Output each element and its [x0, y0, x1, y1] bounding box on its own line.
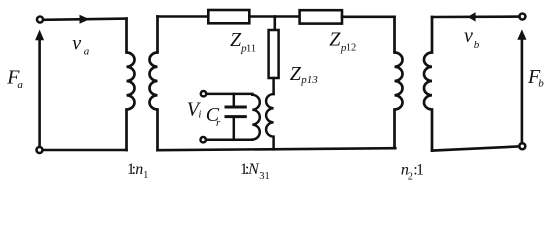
capacitor Cr top lead [233, 94, 236, 106]
inductor L2a primary winding n2:1 [395, 17, 403, 148]
resistor Zp12 box [300, 10, 342, 23]
wire Fa vertical [38, 38, 41, 147]
capacitor Cr bottom plate [226, 115, 245, 118]
svg-text:i: i [198, 109, 201, 121]
terminal port b bottom [519, 143, 525, 149]
wire node stem to Zp13 [273, 17, 276, 31]
inductor L1a primary winding 1:n1 [127, 19, 135, 150]
arrow vb left [468, 12, 476, 21]
svg-text:a: a [17, 79, 23, 91]
svg-text:b: b [474, 39, 480, 51]
capacitor Cr top plate [226, 106, 245, 109]
capacitor Cr bottom lead [233, 118, 236, 140]
svg-text:1: 1 [416, 161, 424, 178]
arrow va right [80, 15, 90, 24]
svg-text:v: v [72, 32, 81, 54]
inductor L2b secondary winding n2:1 [424, 17, 432, 151]
svg-text:11: 11 [246, 43, 256, 54]
arrow Fb up [517, 29, 526, 39]
svg-text:12: 12 [346, 43, 357, 54]
wire Vi bottom [206, 139, 252, 142]
svg-text:31: 31 [259, 171, 270, 182]
svg-text:1: 1 [143, 170, 148, 181]
wire Zp13 to L31b [272, 78, 275, 94]
svg-text:2: 2 [408, 171, 413, 182]
svg-text:Z: Z [290, 63, 302, 85]
wire Fb vertical [521, 37, 524, 143]
svg-text:r: r [216, 117, 221, 129]
inductor L31b secondary winding 1:N31 [266, 94, 274, 149]
svg-text:N: N [247, 161, 260, 178]
svg-text:v: v [464, 25, 473, 47]
wire bottom right horizontal [432, 146, 519, 150]
wire top rail right [342, 15, 395, 18]
wire top rail middle [249, 15, 299, 18]
svg-text:Z: Z [329, 28, 341, 50]
wire top rail left [158, 15, 209, 18]
wire vb top horizontal [432, 15, 519, 18]
svg-text:p13: p13 [300, 74, 318, 86]
terminal Vi bottom [201, 137, 206, 142]
terminal port b top [519, 14, 525, 20]
wire va top horizontal [44, 19, 127, 20]
inductor L31a primary winding 1:N31 [252, 95, 260, 140]
svg-text:a: a [84, 46, 90, 58]
terminal port a bottom [37, 147, 43, 153]
inductor L1b secondary winding 1:n1 [149, 17, 157, 151]
arrow Fa up [35, 30, 44, 41]
terminal port a top [37, 17, 43, 23]
terminal Vi top [201, 91, 206, 96]
svg-text:b: b [538, 78, 544, 90]
svg-text:n: n [135, 161, 143, 178]
resistor Zp13 box [269, 30, 279, 78]
wire bottom left horizontal [43, 149, 126, 152]
wire Vi top [206, 93, 252, 96]
resistor Zp11 box [208, 10, 249, 23]
wire bottom rail [158, 148, 396, 150]
